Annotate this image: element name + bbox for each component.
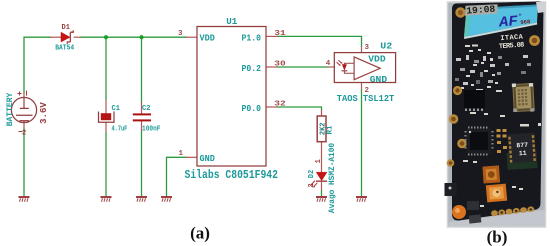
IC2 QFP [467,129,492,154]
lead D1 anode [50,36,61,38]
photo background [448,2,546,227]
diode D1 BAT54 [55,24,74,53]
gold pad left middle [453,86,462,95]
op-amp/IC U1 box [178,17,286,182]
svg-text:U2: U2 [380,42,392,52]
lead U1 pin1 GND [186,156,197,158]
dark component left edge [445,183,457,196]
lead D1 cathode [74,36,82,38]
svg-text:4.7uF: 4.7uF [112,125,128,133]
wire: P0.2 to U2 pin4 [277,66,329,68]
white silkscreen flecks [461,45,541,208]
capacitor C2 100nF [133,105,161,133]
resistor R1 2K2 [317,116,334,142]
amp triangle [354,57,380,80]
gold pad left lower [447,159,455,167]
green module pcb under SHT [506,151,537,170]
photo bg lighter bottom strip [449,210,545,227]
svg-text:GND: GND [200,154,216,164]
svg-text:D1: D1 [62,24,70,32]
svg-text:968: 968 [520,18,531,26]
ground (U1 GND) [161,197,172,202]
svg-text:U1: U1 [226,17,238,27]
svg-text:P0.2: P0.2 [242,64,262,74]
lead C2 bottom [141,121,143,131]
wire: C2 to ground [141,131,143,197]
wire: P0.0 to R1 [277,107,322,111]
bottom gold pads row [491,206,535,216]
lead U2 pin2 [361,83,363,90]
LED emission arrows [311,181,317,187]
svg-text:R1: R1 [327,125,335,135]
ground (D2) [316,197,327,202]
lead U2 pin3 [361,47,363,53]
svg-text:19:08: 19:08 [466,4,496,17]
gold pad left mid2 [449,114,459,124]
svg-text:11: 11 [519,150,527,158]
svg-text:VDD: VDD [368,54,386,65]
svg-text:C2: C2 [142,105,150,113]
lead U1 pin32 [266,106,278,108]
lead battery minus [23,123,25,129]
svg-text:BATTERY: BATTERY [6,93,15,127]
wire: battery to top rail [24,37,51,93]
svg-text:32: 32 [274,101,286,109]
battery BATTERY 3.6V [6,91,49,138]
ground (U2 GND) [356,197,367,202]
gold pad top-left [455,7,465,17]
wire: C2 drop [141,37,143,103]
wire: top rail D1 to VDD pin [80,36,187,38]
svg-text:877: 877 [516,142,528,150]
crystal metal can [512,83,534,113]
ground (C1) [101,197,112,202]
pin leads (dark red) [24,36,362,190]
gold dot cluster left of SHT [497,129,508,153]
lead U2 pin4 [328,66,335,68]
svg-text:1: 1 [179,150,184,158]
svg-text:3: 3 [178,30,183,38]
wire: C1 to ground [105,132,107,196]
svg-text:TAOS TSL12T: TAOS TSL12T [337,94,395,104]
capacitor C1 4.7uF [99,105,128,133]
wire: U2 GND to ground [361,89,363,196]
scattered small components upper area [455,55,531,85]
wire: P1.0 to U2 VDD [277,36,362,47]
svg-text:100nF: 100nF [142,125,161,133]
svg-text:Silabs C8051F942: Silabs C8051F942 [185,169,279,182]
lead D2 cathode [321,182,323,191]
photodiode [342,64,347,70]
light sensor U2 TAOS TSL12T [326,42,396,105]
svg-text:2: 2 [22,130,26,138]
wire: U1 GND to ground [167,157,188,196]
svg-text:BAT54: BAT54 [55,45,74,53]
lead C1 bottom [105,122,107,132]
ground (battery) [19,197,30,202]
lead U1 pin3 [186,36,197,38]
lead C1 top [105,100,107,114]
lead R1 bottom to D2 anode [321,142,323,173]
svg-text:Avago HSMZ-A100: Avago HSMZ-A100 [329,143,337,214]
wire: battery minus to ground [23,128,25,197]
wire: C1 drop [105,37,107,100]
wire: D2 cathode to ground [321,190,323,196]
ground (C2) [136,197,147,202]
battery minus mark and pin 2 [19,131,23,133]
svg-text:1: 1 [315,159,323,163]
svg-text:(a): (a) [190,223,210,242]
junction node C2/top rail [139,35,143,39]
gold pad right upper [529,35,540,46]
orange component upper [482,165,500,183]
svg-text:30: 30 [274,60,286,68]
SHT sensor module [508,133,537,164]
svg-text:D2: D2 [308,170,316,178]
svg-text:VDD: VDD [200,33,216,43]
IC1 QFN [464,90,485,109]
lead C2 top [141,103,143,114]
light arrows into photodiode [337,60,342,65]
svg-text:3.6V: 3.6V [39,102,49,124]
svg-text:C1: C1 [112,105,120,113]
PCB photo (b) [445,2,546,228]
PCB board [452,2,544,221]
LCD module [464,4,538,39]
junction node C1/top rail [104,35,108,39]
lead battery plus [23,93,25,99]
svg-text:AF: AF [497,14,518,32]
flex connector top right [536,2,545,13]
orange LED bottom-left [452,205,466,219]
svg-text:P0.0: P0.0 [242,104,262,114]
svg-text:P1.0: P1.0 [242,33,262,43]
lead R1 top [321,110,323,116]
svg-text:+: + [519,13,522,19]
svg-text:31: 31 [274,30,286,38]
orange component lower [486,184,507,203]
dark blobs bottom-left [467,201,479,210]
svg-text:3: 3 [365,44,370,52]
battery plus mark [18,92,22,96]
silkscreen ITACA TER5.08 [498,33,525,51]
svg-text:(b): (b) [487,227,508,246]
gold pad left mid3 [457,139,467,149]
svg-text:GND: GND [370,74,388,85]
lead U1 pin31 [266,35,278,37]
svg-text:4: 4 [326,60,331,68]
LED D2 Avago HSMZ-A100 [308,143,337,214]
lead U1 pin30 [266,66,278,68]
